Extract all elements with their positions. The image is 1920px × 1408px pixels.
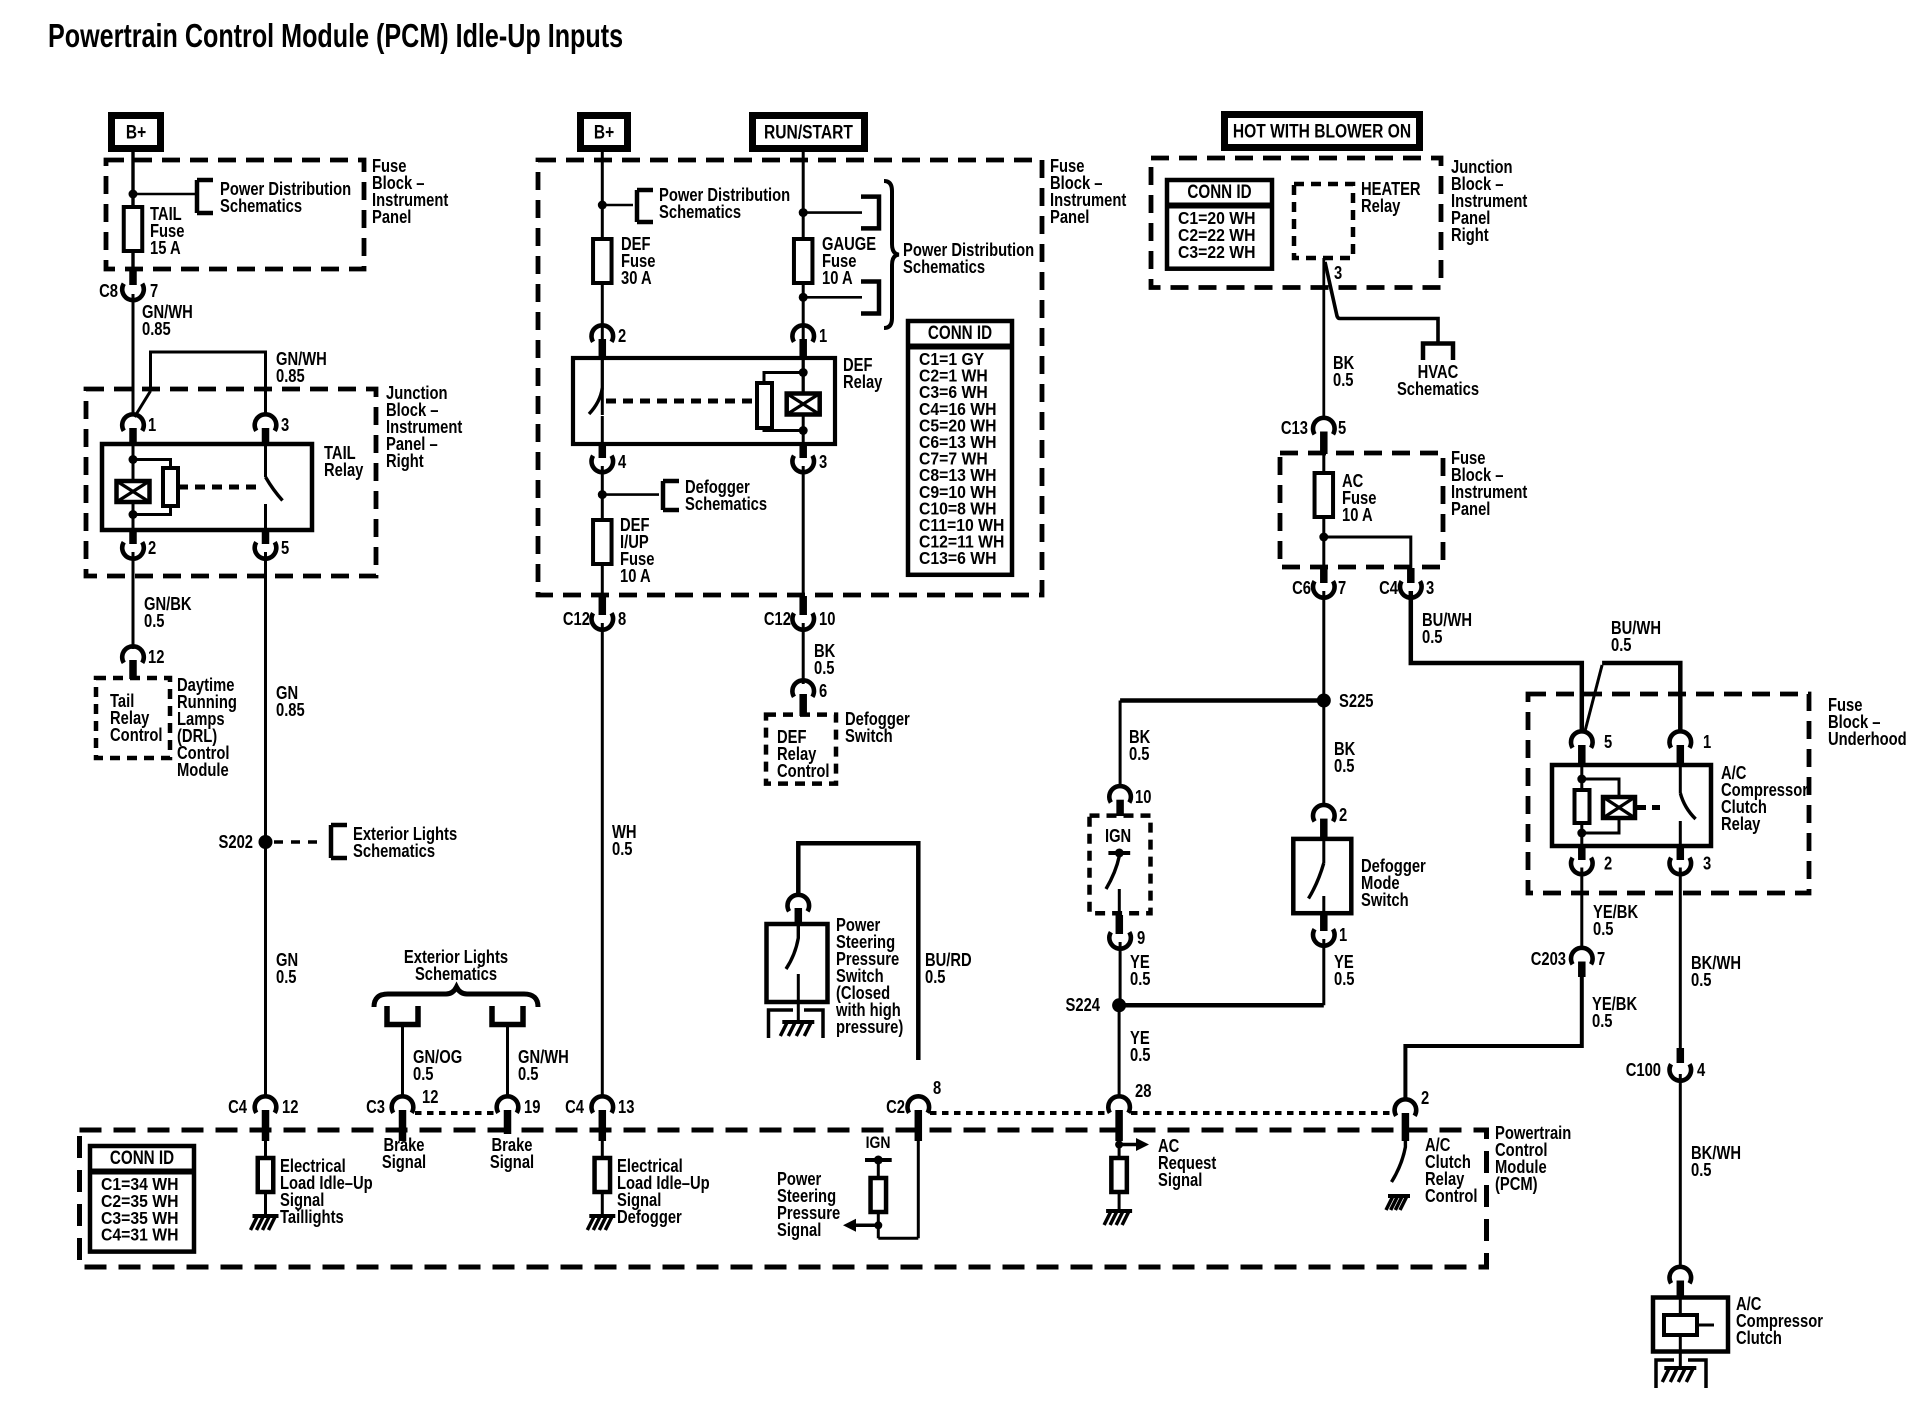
svg-text:8: 8 (933, 1078, 941, 1098)
svg-text:0.5: 0.5 (1129, 744, 1150, 764)
svg-text:7: 7 (150, 281, 158, 301)
svg-text:B+: B+ (594, 123, 614, 144)
svg-text:2: 2 (1339, 805, 1347, 825)
svg-text:8: 8 (618, 609, 626, 629)
svg-text:0.85: 0.85 (276, 366, 305, 386)
svg-text:5: 5 (281, 538, 289, 558)
svg-text:0.5: 0.5 (612, 839, 633, 859)
svg-text:2: 2 (148, 538, 156, 558)
svg-text:0.5: 0.5 (1611, 635, 1632, 655)
svg-text:15 A: 15 A (150, 238, 181, 258)
svg-text:0.5: 0.5 (144, 611, 165, 631)
svg-text:3: 3 (281, 415, 289, 435)
svg-text:0.5: 0.5 (1333, 370, 1354, 390)
svg-text:13: 13 (618, 1097, 634, 1117)
svg-text:C8: C8 (99, 281, 118, 301)
svg-text:0.85: 0.85 (142, 319, 171, 339)
svg-text:C13=6 WH: C13=6 WH (919, 548, 997, 568)
svg-text:9: 9 (1137, 928, 1145, 948)
svg-text:1: 1 (1339, 925, 1347, 945)
svg-text:Panel: Panel (1050, 207, 1089, 227)
svg-text:B+: B+ (126, 123, 146, 144)
svg-text:0.5: 0.5 (1691, 1160, 1712, 1180)
svg-text:0.5: 0.5 (1130, 969, 1151, 989)
svg-text:Relay: Relay (1721, 814, 1760, 834)
svg-text:Schematics: Schematics (659, 202, 741, 222)
svg-text:Right: Right (1451, 225, 1489, 245)
svg-text:3: 3 (1334, 263, 1342, 283)
svg-text:Taillights: Taillights (280, 1207, 344, 1227)
svg-text:Control: Control (1425, 1186, 1478, 1206)
svg-text:(PCM): (PCM) (1495, 1174, 1538, 1194)
svg-text:7: 7 (1597, 949, 1605, 969)
svg-text:CONN ID: CONN ID (110, 1148, 174, 1169)
svg-text:0.5: 0.5 (925, 967, 946, 987)
svg-text:Schematics: Schematics (353, 841, 435, 861)
svg-text:Switch: Switch (845, 726, 893, 746)
svg-text:Schematics: Schematics (1397, 379, 1479, 399)
svg-text:0.5: 0.5 (276, 967, 297, 987)
svg-text:0.5: 0.5 (518, 1064, 539, 1084)
svg-text:C4=31 WH: C4=31 WH (101, 1225, 179, 1245)
svg-text:Relay: Relay (1361, 196, 1400, 216)
svg-text:2: 2 (618, 326, 626, 346)
svg-text:0.5: 0.5 (413, 1064, 434, 1084)
svg-text:Control: Control (110, 725, 163, 745)
svg-text:10: 10 (819, 609, 835, 629)
svg-text:Switch: Switch (1361, 890, 1409, 910)
svg-text:CONN ID: CONN ID (928, 323, 992, 344)
svg-text:0.5: 0.5 (1593, 919, 1614, 939)
svg-text:C12: C12 (563, 609, 590, 629)
svg-text:Schematics: Schematics (220, 196, 302, 216)
svg-text:Schematics: Schematics (685, 494, 767, 514)
svg-text:HOT WITH BLOWER ON: HOT WITH BLOWER ON (1233, 122, 1411, 143)
svg-text:S202: S202 (219, 832, 254, 852)
svg-text:6: 6 (819, 681, 827, 701)
svg-text:Schematics: Schematics (415, 964, 497, 984)
svg-text:3: 3 (1426, 578, 1434, 598)
svg-text:3: 3 (819, 452, 827, 472)
svg-text:0.5: 0.5 (814, 658, 835, 678)
svg-text:S225: S225 (1339, 691, 1374, 711)
svg-text:0.5: 0.5 (1130, 1045, 1151, 1065)
svg-text:1: 1 (1703, 732, 1711, 752)
svg-text:Panel: Panel (1451, 499, 1490, 519)
svg-text:2: 2 (1421, 1088, 1429, 1108)
svg-text:pressure): pressure) (836, 1017, 903, 1037)
svg-text:19: 19 (524, 1097, 540, 1117)
svg-text:7: 7 (1338, 578, 1346, 598)
svg-text:10 A: 10 A (1342, 505, 1373, 525)
svg-text:RUN/START: RUN/START (764, 123, 853, 144)
svg-text:0.85: 0.85 (276, 700, 305, 720)
svg-text:Right: Right (386, 451, 424, 471)
svg-text:Signal: Signal (490, 1152, 534, 1172)
svg-text:IGN: IGN (1105, 826, 1131, 846)
svg-text:IGN: IGN (866, 1133, 891, 1152)
svg-text:2: 2 (1604, 854, 1612, 874)
svg-text:C4: C4 (1379, 578, 1398, 598)
svg-text:C12: C12 (764, 609, 791, 629)
svg-text:Schematics: Schematics (903, 257, 985, 277)
svg-text:CONN ID: CONN ID (1187, 182, 1251, 203)
svg-text:C203: C203 (1531, 949, 1566, 969)
svg-text:C3=22 WH: C3=22 WH (1178, 242, 1256, 262)
svg-text:Underhood: Underhood (1828, 729, 1907, 749)
svg-text:C4: C4 (228, 1097, 247, 1117)
svg-text:10 A: 10 A (620, 566, 651, 586)
svg-text:Relay: Relay (843, 372, 882, 392)
svg-text:3: 3 (1703, 854, 1711, 874)
svg-text:C6: C6 (1292, 578, 1311, 598)
svg-text:5: 5 (1338, 418, 1346, 438)
svg-text:Clutch: Clutch (1736, 1328, 1782, 1348)
svg-text:30 A: 30 A (621, 268, 652, 288)
svg-text:10: 10 (1135, 787, 1151, 807)
svg-text:C4: C4 (565, 1097, 584, 1117)
svg-text:Control: Control (777, 761, 830, 781)
svg-text:Signal: Signal (1158, 1170, 1202, 1190)
svg-text:1: 1 (148, 415, 156, 435)
svg-text:12: 12 (422, 1087, 438, 1107)
svg-text:Defogger: Defogger (617, 1207, 682, 1227)
svg-text:Module: Module (177, 760, 229, 780)
svg-text:5: 5 (1604, 732, 1612, 752)
svg-text:Signal: Signal (382, 1152, 426, 1172)
svg-text:10 A: 10 A (822, 268, 853, 288)
svg-text:0.5: 0.5 (1592, 1011, 1613, 1031)
svg-text:12: 12 (148, 647, 164, 667)
svg-text:Panel: Panel (372, 207, 411, 227)
svg-text:0.5: 0.5 (1334, 969, 1355, 989)
svg-text:C13: C13 (1281, 418, 1308, 438)
svg-text:0.5: 0.5 (1422, 627, 1443, 647)
svg-text:12: 12 (282, 1097, 298, 1117)
svg-text:C2: C2 (886, 1097, 905, 1117)
svg-text:Signal: Signal (777, 1220, 821, 1240)
svg-text:0.5: 0.5 (1691, 970, 1712, 990)
svg-text:C100: C100 (1626, 1060, 1661, 1080)
svg-text:4: 4 (1697, 1060, 1705, 1080)
svg-text:1: 1 (819, 326, 827, 346)
svg-text:0.5: 0.5 (1334, 756, 1355, 776)
svg-text:4: 4 (618, 452, 626, 472)
svg-text:Relay: Relay (324, 460, 363, 480)
svg-text:Powertrain Control Module (PCM: Powertrain Control Module (PCM) Idle-Up … (48, 18, 623, 55)
svg-text:C3: C3 (366, 1097, 385, 1117)
svg-text:28: 28 (1135, 1081, 1151, 1101)
svg-text:S224: S224 (1066, 995, 1101, 1015)
